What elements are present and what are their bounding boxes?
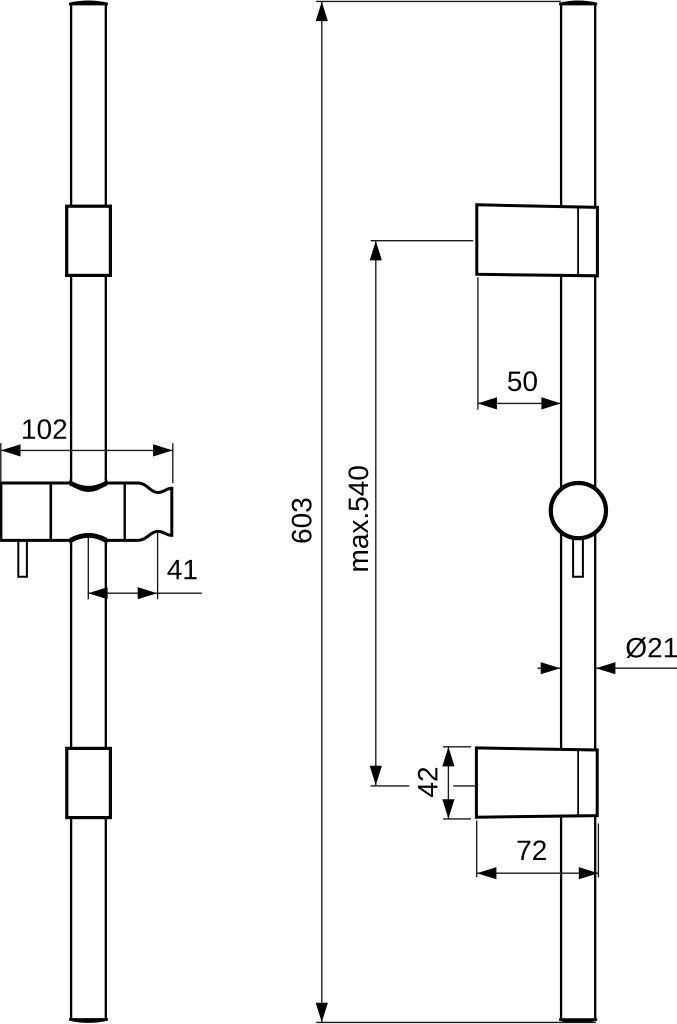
- dimension max.540: top extension line: [371, 240, 474, 242]
- dimension 603: bottom arrow: [316, 1003, 328, 1023]
- rod-holder junction arc bottom: [71, 535, 107, 540]
- bottom wall bracket divider: [577, 750, 579, 816]
- holder body (left view): [1, 483, 172, 540]
- rod-holder junction arc top: [71, 483, 107, 488]
- holder divider right: [123, 483, 125, 540]
- dimension 102: left arrow: [1, 444, 21, 456]
- dimension 72: right arrow: [579, 867, 599, 879]
- dimension 72: left arrow: [477, 867, 497, 879]
- dimension 603: bottom extension line: [316, 1021, 596, 1023]
- dimension 603: top extension line: [316, 0, 561, 2]
- dimension max.540: bottom extension line segment a: [371, 785, 410, 787]
- right rod bottom cap: [559, 1018, 597, 1023]
- dimension 102: label: [23, 419, 66, 439]
- dimension 42: bottom extension line: [443, 818, 471, 820]
- dimension 42: dim line: [447, 747, 449, 819]
- dimension 41: right arrow: [138, 587, 158, 599]
- dimension 41: right extension line: [157, 532, 159, 599]
- slider slot (right view): [573, 538, 583, 577]
- dimension Ø21: left arrow (points right): [541, 662, 561, 674]
- right rod: [561, 3, 595, 1020]
- dimension 72: label: [518, 840, 546, 860]
- dimension 102: left extension line: [0, 443, 2, 483]
- dimension 50: label: [508, 371, 537, 391]
- dimension Ø21: right tail line: [596, 667, 677, 669]
- dimension 41: label: [167, 560, 196, 579]
- dimension Ø21: left tail line: [537, 667, 560, 669]
- left rod bottom cap: [69, 1018, 108, 1023]
- dimension 102: right extension line: [172, 443, 174, 483]
- dimension max.540: top arrow: [370, 241, 382, 261]
- top sleeve (left view): [67, 206, 111, 275]
- dimension 42: bottom arrow: [442, 799, 454, 819]
- dimension 42: top arrow: [442, 747, 454, 767]
- dimension 603: top arrow: [316, 2, 328, 22]
- left rod: [69, 3, 108, 1019]
- dimension max.540: bottom arrow: [370, 766, 382, 786]
- dimension 102: right arrow: [153, 444, 173, 456]
- dimension 41: left arrow: [88, 587, 108, 599]
- dimension 41: left extension line: [87, 538, 89, 599]
- right rod top cap: [559, 1, 597, 6]
- dimension 50: dim line: [478, 402, 561, 404]
- rod-holder junction thin under-arc top: [74, 486, 104, 491]
- dimension 50: left arrow: [478, 397, 498, 409]
- top wall bracket (right view): [477, 205, 598, 276]
- bottom wall bracket (right view): [476, 748, 597, 817]
- dimension 72: right extension line: [597, 824, 599, 878]
- holder pin (left view): [18, 538, 27, 577]
- dimension 42: top extension line: [443, 746, 471, 748]
- dimension 603: label: [292, 498, 312, 542]
- dimension max.540: bottom extension line segment b: [453, 785, 476, 787]
- bottom sleeve (left view): [67, 748, 111, 817]
- slider knob circle: [551, 483, 606, 538]
- dimension 72: left extension line: [476, 821, 478, 878]
- dimension 42: label: [418, 768, 438, 797]
- dimension 102: dim line: [1, 449, 173, 451]
- dimension 50: right arrow: [541, 397, 561, 409]
- left rod top cap: [69, 1, 108, 6]
- holder divider left: [49, 483, 52, 540]
- rod flare fillets at holder: [69, 477, 71, 484]
- dimension max.540: dim line: [375, 241, 377, 785]
- dimension 72: dim line: [477, 872, 598, 874]
- dimension 50: left extension line: [477, 277, 479, 410]
- dimension 41: dim line: [88, 592, 202, 594]
- top wall bracket divider: [577, 207, 579, 276]
- dimension Ø21: label: [626, 637, 677, 658]
- dimension 603: dim line: [321, 2, 323, 1022]
- dimension max.540: label: [348, 466, 368, 570]
- dimension Ø21: right arrow (points left): [596, 662, 616, 674]
